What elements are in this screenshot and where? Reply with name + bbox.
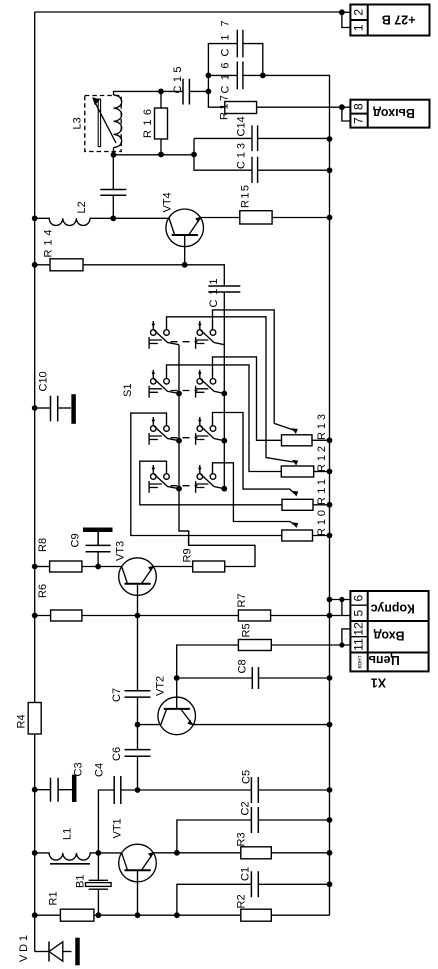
wire pin6 from bus xyxy=(330,599,351,601)
resistor R9 xyxy=(193,561,225,572)
node C16/C17 right xyxy=(260,73,266,79)
wire C7 bottom lead xyxy=(137,697,139,750)
capacitor C6 xyxy=(125,750,151,757)
svg-text:VT2: VT2 xyxy=(155,676,167,696)
R10 wiper arrowhead xyxy=(292,522,298,528)
svg-text:R16: R16 xyxy=(142,109,154,138)
capacitor C1 xyxy=(251,871,258,897)
svg-text:S1: S1 xyxy=(122,384,134,397)
svg-text:R5: R5 xyxy=(241,623,253,637)
svg-text:6: 6 xyxy=(352,594,366,601)
wire right bus xyxy=(263,75,330,915)
wire L1 to VT1 xyxy=(98,852,121,854)
diode VD1 xyxy=(49,938,78,966)
node S1 row4 right out xyxy=(221,486,227,492)
inductor L3 xyxy=(85,95,122,151)
capacitor C4 xyxy=(114,776,121,804)
svg-text:R3: R3 xyxy=(236,832,248,846)
node L3 bottom xyxy=(111,152,117,158)
wire R1 right lead xyxy=(94,914,138,916)
wire S1 mechanical link row1 xyxy=(171,341,198,343)
node R8 left xyxy=(32,564,38,570)
node C4/C6/C5 xyxy=(135,787,141,793)
wire C14 right lead xyxy=(258,137,330,139)
svg-text:C6: C6 xyxy=(111,747,123,761)
wire R3 right lead xyxy=(271,852,329,854)
wire C13 right lead xyxy=(258,169,330,171)
wire R16 top lead xyxy=(160,91,162,108)
node C3 left xyxy=(32,787,38,793)
switch S1 section row1B xyxy=(196,321,225,349)
inductor L1 xyxy=(35,853,99,864)
node R16 top xyxy=(158,89,164,95)
node R12 bus xyxy=(327,469,333,475)
resistor R8 xyxy=(50,561,82,572)
node R11 bus xyxy=(327,502,333,508)
switch S1 section row2A xyxy=(149,370,179,398)
switch S1 section row2B xyxy=(196,370,225,398)
wire C1 right lead xyxy=(258,883,329,885)
capacitor C14 xyxy=(252,125,258,151)
capacitor C13 xyxy=(252,157,258,183)
node C8 bus xyxy=(327,675,333,681)
node C15 right xyxy=(206,89,212,95)
wire pin1 of +27V xyxy=(342,12,351,27)
wire C2 right lead xyxy=(258,819,329,821)
svg-text:C1: C1 xyxy=(240,867,252,881)
resistor R7 xyxy=(238,610,270,621)
wire C16 left lead xyxy=(208,74,237,76)
wire C12 bottom lead xyxy=(112,195,114,218)
wire B1 bottom lead xyxy=(97,889,99,915)
node C1 bus xyxy=(327,881,333,887)
wire C9 bottom lead xyxy=(97,552,99,567)
node S1 row3 right out xyxy=(221,438,227,444)
wire tap to C13/C14 link xyxy=(193,139,195,155)
node VT2 bus xyxy=(327,722,333,728)
node C14 bus xyxy=(327,136,333,142)
wire R8 right lead xyxy=(82,566,122,568)
wire C6 bottom lead xyxy=(137,756,139,790)
crystal B1 xyxy=(86,880,112,889)
wire pin12 branch xyxy=(342,629,351,645)
wire L3 top to C15 xyxy=(114,91,162,95)
capacitor C3 xyxy=(51,775,75,802)
wire C3 lead xyxy=(35,789,51,791)
wire VT3 base lead xyxy=(137,584,139,691)
node L2 left xyxy=(32,215,38,221)
svg-text:VT3: VT3 xyxy=(115,541,127,561)
svg-text:Корпус: Корпус xyxy=(371,601,415,615)
connector X1 xyxy=(350,591,428,690)
wire VT1 base lead xyxy=(137,870,139,915)
node S1 row2 left out xyxy=(176,391,182,397)
wire S1 mechanical link row4 xyxy=(171,485,198,487)
wire R2 right lead xyxy=(271,914,329,916)
svg-text:R9: R9 xyxy=(182,548,194,562)
wire C14 left lead xyxy=(194,137,252,139)
svg-text:+27 В: +27 В xyxy=(382,13,416,27)
svg-text:C2: C2 xyxy=(240,801,252,815)
svg-text:2: 2 xyxy=(352,9,366,16)
wire C2 riser xyxy=(177,820,252,853)
wire row2A contact to R12 lead xyxy=(167,365,282,472)
wire C15 left lead xyxy=(161,90,183,92)
svg-text:C7: C7 xyxy=(111,688,123,702)
node junction +27V xyxy=(339,9,345,15)
svg-text:R12: R12 xyxy=(316,446,328,472)
svg-text:R6: R6 xyxy=(37,584,49,598)
wire R6 left lead xyxy=(35,615,51,617)
resistor R10 xyxy=(282,530,313,541)
transistor VT3 xyxy=(119,558,157,596)
svg-text:R7: R7 xyxy=(236,593,248,607)
svg-text:R11: R11 xyxy=(316,479,328,505)
wire C11 common to switches xyxy=(223,292,225,489)
resistor R2 xyxy=(241,909,271,921)
wire VT1 right lead xyxy=(153,852,177,854)
node R13 bus xyxy=(327,437,333,443)
node R1 left xyxy=(32,912,38,918)
node C1 tap xyxy=(174,912,180,918)
capacitor C2 xyxy=(251,807,258,833)
capacitor C12 xyxy=(100,190,126,196)
svg-text:1: 1 xyxy=(352,24,366,31)
resistor R3 xyxy=(241,847,271,859)
node C5 bus xyxy=(327,787,333,793)
svg-text:R4: R4 xyxy=(16,714,28,728)
node C10 left xyxy=(32,405,38,411)
resistor R17 xyxy=(225,102,257,114)
wire row1B contact to R13 arrow xyxy=(213,310,296,431)
switch S1 section row4B xyxy=(196,465,225,493)
wire pin7 branch xyxy=(342,107,351,121)
svg-text:12: 12 xyxy=(352,622,366,636)
wire C9 top lead xyxy=(97,531,99,545)
node C13/C14 tap xyxy=(191,152,197,158)
svg-text:C5: C5 xyxy=(241,770,253,784)
node L1 right / B1 top xyxy=(96,850,102,856)
wire R6 to R7 xyxy=(82,615,239,617)
wire VT2 left xyxy=(138,724,161,726)
svg-text:C8: C8 xyxy=(237,659,249,673)
capacitor C11 xyxy=(208,286,240,292)
wire top border (+27V feed) xyxy=(35,11,342,13)
svg-text:R8: R8 xyxy=(37,538,49,552)
svg-text:C16: C16 xyxy=(219,63,231,94)
transistor VT4 xyxy=(166,209,204,247)
wire R8 left lead xyxy=(35,566,50,568)
svg-text:11: 11 xyxy=(352,638,366,651)
node R7 bus xyxy=(327,613,333,619)
wire row4A contact to R11 lead xyxy=(140,461,283,505)
wire R14 right lead xyxy=(83,264,185,266)
node R15 bus xyxy=(327,215,333,221)
wire L2 right to VT4 xyxy=(99,217,169,219)
node S1 row3 left out xyxy=(176,438,182,444)
svg-text:VT1: VT1 xyxy=(112,818,124,838)
wire left rail xyxy=(34,12,36,952)
wire C4 left riser xyxy=(98,790,114,853)
wire S1 mechanical link row2 xyxy=(171,390,198,392)
capacitor C9 xyxy=(83,530,113,552)
wire B1 top lead xyxy=(97,853,99,880)
wire row1A contact to R12 arrow xyxy=(167,317,294,462)
node L1 left xyxy=(32,850,38,856)
resistor R12 xyxy=(281,466,313,477)
resistor R13 xyxy=(282,435,313,446)
svg-text:конт: конт xyxy=(357,655,364,668)
wire VT2 base to C8 xyxy=(177,677,253,679)
node C2 bus xyxy=(327,817,333,823)
node VT4 base wire left xyxy=(110,215,116,221)
resistor R1 xyxy=(60,909,94,921)
wire R9 right lead xyxy=(179,531,255,567)
node B1 bottom xyxy=(96,912,102,918)
svg-text:R2: R2 xyxy=(236,894,248,908)
wire C13 left lead xyxy=(194,155,252,171)
svg-text:L3: L3 xyxy=(72,117,84,129)
R11 wiper arrowhead xyxy=(292,491,298,497)
wire pin2 of +27V xyxy=(342,11,351,13)
transistor VT1 xyxy=(119,844,157,882)
node VT3 base / R6 xyxy=(135,613,141,619)
svg-text:8: 8 xyxy=(352,103,366,110)
node pin11 jog xyxy=(339,642,344,647)
resistor R5 xyxy=(238,640,271,651)
wire R13 right lead xyxy=(312,439,330,441)
resistor R4 xyxy=(28,703,41,735)
svg-text:R14: R14 xyxy=(43,230,55,258)
wire VT4 right to R15 xyxy=(201,217,241,219)
R12 wiper arrowhead xyxy=(292,460,298,466)
svg-text:C13: C13 xyxy=(235,143,247,169)
resistor R14 xyxy=(50,259,83,271)
wire R14 left lead xyxy=(35,264,50,266)
svg-text:C10: C10 xyxy=(38,371,50,391)
wire R15 right lead xyxy=(271,217,330,219)
node VT1 collector tap xyxy=(174,850,180,856)
wire pin6/pin5 jog xyxy=(341,600,343,616)
wire C15 node to R17 xyxy=(208,75,224,107)
svg-text:R1: R1 xyxy=(48,891,60,905)
svg-text:L2: L2 xyxy=(76,201,88,213)
capacitor C10 xyxy=(51,394,74,424)
capacitor C16 xyxy=(237,62,243,90)
svg-text:B1: B1 xyxy=(75,875,87,888)
wire row4B contact to R10 arrow xyxy=(213,463,295,525)
svg-text:C4: C4 xyxy=(94,763,106,777)
wire S1 mechanical link row3 xyxy=(171,437,198,439)
resistor R6 xyxy=(51,610,82,621)
node VT1 base / R1 wire xyxy=(135,912,141,918)
svg-text:Вход: Вход xyxy=(373,629,404,643)
wire row3A contact to R10 lead xyxy=(131,413,282,535)
node C16 left xyxy=(206,73,212,79)
node C13 bus xyxy=(327,167,333,173)
wire R17 to pin8 xyxy=(257,106,351,108)
wire C1 riser xyxy=(177,884,252,915)
wire VT4 base lead xyxy=(184,235,186,265)
svg-text:C17: C17 xyxy=(219,21,231,57)
wire row2B contact to R13 lead xyxy=(213,357,282,440)
node VT4 base / R14 xyxy=(182,262,188,268)
wire C17 left lead xyxy=(208,44,237,76)
capacitor C15 xyxy=(183,79,189,105)
svg-text:L1: L1 xyxy=(62,828,74,840)
wire R12 right lead xyxy=(314,471,330,473)
capacitor C8 xyxy=(252,667,258,689)
resistor R16 xyxy=(155,108,168,139)
wire VT2 base lead xyxy=(176,678,178,709)
transistor VT2 xyxy=(158,697,196,735)
connector Vyhod xyxy=(350,100,429,128)
wire L3 bottom rail xyxy=(114,148,195,155)
svg-text:Цепь: Цепь xyxy=(368,653,400,667)
capacitor C7 xyxy=(125,691,151,697)
svg-text:C15: C15 xyxy=(172,67,184,94)
inductor L2 xyxy=(35,218,99,225)
wire VT1 to R3 xyxy=(177,852,241,854)
svg-text:VT4: VT4 xyxy=(162,192,174,212)
wire R7 to pin5 xyxy=(271,615,351,617)
node R6 left xyxy=(32,613,38,619)
wire R16 bottom lead xyxy=(160,139,162,155)
wire row3B contact to R11 arrow xyxy=(213,413,295,494)
wire C16 right lead xyxy=(243,74,263,76)
svg-text:R13: R13 xyxy=(316,414,328,440)
node VT2 left wire xyxy=(135,722,141,728)
svg-text:5: 5 xyxy=(352,609,366,616)
resistor R15 xyxy=(240,211,272,224)
node R10 bus xyxy=(327,533,333,539)
wire R10 right lead xyxy=(313,535,330,537)
svg-text:R10: R10 xyxy=(316,510,328,536)
wire R1 left lead xyxy=(35,914,61,916)
node S1 row4 left out xyxy=(176,486,182,492)
wire VT3 right to R9 xyxy=(153,566,192,568)
wire VT4 base to C11 xyxy=(185,265,225,286)
svg-text:Выход: Выход xyxy=(373,106,415,120)
connector +27V xyxy=(350,5,429,36)
svg-text:7: 7 xyxy=(352,117,366,124)
R13 wiper arrowhead xyxy=(292,428,298,434)
svg-text:X1: X1 xyxy=(371,676,386,690)
node pin6 bus xyxy=(327,597,333,603)
node R14 left xyxy=(32,262,38,268)
wire C4 to C5 xyxy=(121,789,252,791)
node VT2 base xyxy=(174,675,180,681)
node pin6 jog xyxy=(339,597,344,602)
wire C5 right lead xyxy=(258,789,329,791)
svg-text:C11: C11 xyxy=(208,279,220,308)
capacitor C5 xyxy=(251,777,258,803)
capacitor C17 xyxy=(237,30,243,58)
switch S1 section row1A xyxy=(149,321,179,349)
node R3 bus xyxy=(327,850,333,856)
svg-text:C14: C14 xyxy=(235,116,247,136)
svg-text:R17: R17 xyxy=(219,95,231,120)
wire R5 to pin11 xyxy=(271,644,350,646)
wire VT2 right lead xyxy=(193,724,330,726)
switch S1 section row3A xyxy=(149,417,179,445)
wire R11 right lead xyxy=(313,504,330,506)
node S1 row2 right out xyxy=(221,391,227,397)
switch S1 section row3B xyxy=(196,417,225,445)
svg-text:C9: C9 xyxy=(70,533,82,547)
node R16 bottom xyxy=(158,152,164,158)
wire C17 right lead xyxy=(243,44,263,76)
wire S1 left common xyxy=(179,345,189,546)
switch S1 section row4A xyxy=(149,465,179,493)
wire C15 right lead xyxy=(189,90,208,92)
wire VD1 lead xyxy=(35,951,49,953)
wire C8 right lead xyxy=(259,677,330,679)
svg-text:C3: C3 xyxy=(73,762,85,776)
svg-text:VD1: VD1 xyxy=(18,935,30,962)
wire R1 wire to R2 xyxy=(138,914,241,916)
wire C10 lead xyxy=(35,407,51,409)
resistor R11 xyxy=(282,499,313,510)
node junction Vyhod xyxy=(339,104,345,110)
wire VT2 base to R5 xyxy=(177,645,239,678)
wire C12 top lead xyxy=(112,155,114,190)
node C9 bottom xyxy=(95,564,101,570)
svg-text:R15: R15 xyxy=(240,185,252,208)
